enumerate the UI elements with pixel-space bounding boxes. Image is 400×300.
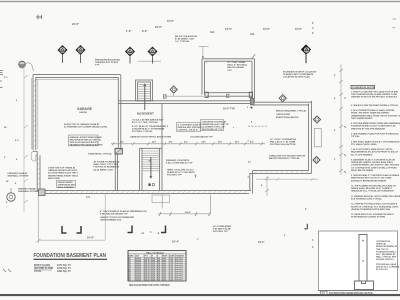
svg-text:VACANT DEVLDG: VACANT DEVLDG <box>376 258 394 261</box>
svg-text:COVER BETWEEN, LAP JOINTS 6" M: COVER BETWEEN, LAP JOINTS 6" MIN., PROVI… <box>351 164 400 167</box>
svg-text:W/ BITUMINOUS COATING SYSTEM: W/ BITUMINOUS COATING SYSTEM <box>351 216 385 219</box>
svg-text:8x16: 8x16 <box>162 280 166 282</box>
svg-text:ALIGN TOP OF GARAGE SLAB AT: ALIGN TOP OF GARAGE SLAB AT <box>64 123 100 126</box>
svg-text:4x4: 4x4 <box>120 141 124 144</box>
detail box <box>319 231 400 295</box>
svg-text:THE POWDER BOARD: THE POWDER BOARD <box>351 117 373 120</box>
svg-text:2: 2 <box>312 31 314 35</box>
slab note bottom <box>100 210 147 222</box>
svg-text:2x4-16: 2x4-16 <box>144 279 149 282</box>
svg-text:AT DIR LUG: AT DIR LUG <box>376 268 388 271</box>
svg-text:2: 2 <box>247 107 249 109</box>
svg-text:THE FOUNDATION WALLS AND ORDER: THE FOUNDATION WALLS AND ORDERS TO BE <box>351 93 398 96</box>
svg-text:GARAGE MODELS W/ ELEC.: GARAGE MODELS W/ ELEC. <box>48 169 78 172</box>
garage left wall <box>32 75 38 150</box>
left margin tick marks <box>0 71 3 88</box>
svg-text:PROVIDE ALL BASE: PROVIDE ALL BASE <box>376 263 397 266</box>
svg-text:WALL SPLIT 2 TP CONT: WALL SPLIT 2 TP CONT <box>94 163 120 166</box>
left margin tiny dim texts <box>4 77 19 204</box>
svg-text:8': 8' <box>4 157 6 159</box>
brace required note <box>276 110 307 120</box>
scan bottom border line <box>0 294 400 296</box>
svg-text:UNDERPINNING WALL FROM TOP. BY: UNDERPINNING WALL FROM TOP. BY FOOTING T… <box>351 114 400 117</box>
area summary lines <box>34 264 71 273</box>
svg-text:+d: +d <box>141 232 144 235</box>
svg-text:B. AT EMB'D 7x48": B. AT EMB'D 7x48" <box>175 38 195 41</box>
circle symbol top left <box>19 61 34 71</box>
svg-text:24'-0": 24'-0" <box>155 25 163 29</box>
svg-text:24'-0": 24'-0" <box>225 27 233 31</box>
svg-text:3. ALL FOUNDATION WALLS SHALL: 3. ALL FOUNDATION WALLS SHALL SPECIAL <box>351 109 395 112</box>
upper stair treads <box>138 85 151 99</box>
svg-text:12. STEPPED FOOTINGS SHALL NO: 12. STEPPED FOOTINGS SHALL NOT EXCEED A <box>351 203 398 206</box>
svg-text:AT 8" O.C. MID, TYPICAL: AT 8" O.C. MID, TYPICAL <box>132 121 159 124</box>
small marks near bump corner <box>202 57 208 65</box>
dim line under right section <box>256 178 318 182</box>
detail text <box>376 241 400 271</box>
left wall jog <box>31 151 40 190</box>
svg-text:2-#4: 2-#4 <box>169 279 172 282</box>
top diamond marker 3 <box>125 47 134 64</box>
svg-text:GRAVITY POINT ON PERIMETER: GRAVITY POINT ON PERIMETER <box>100 216 134 219</box>
svg-text:PRESSURE BALANCED: PRESSURE BALANCED <box>95 59 120 62</box>
svg-text:UNDISTURBED SOIL: UNDISTURBED SOIL <box>100 219 122 221</box>
dashed dim line <box>248 125 267 127</box>
svg-text:LANDLORD TOP HOUSE PORTION: LANDLORD TOP HOUSE PORTION <box>269 155 306 158</box>
svg-text:TYP.: TYP. <box>227 70 232 72</box>
svg-text:4x4: 4x4 <box>184 141 188 144</box>
right section top wall <box>252 102 312 105</box>
svg-text:AND AT ALL CORNERS: AND AT ALL CORNERS <box>376 265 400 268</box>
foundation location note <box>283 71 317 79</box>
svg-text:+: + <box>206 62 208 64</box>
svg-text:UNEX. ON SLOPE TO 4'0": UNEX. ON SLOPE TO 4'0" <box>167 169 194 172</box>
svg-text:FOUNDATION/ BASEMENT PLAN: FOUNDATION/ BASEMENT PLAN <box>34 253 107 259</box>
svg-text:WALL FRAMING: WALL FRAMING <box>58 186 75 189</box>
svg-text:8: 8 <box>16 100 18 102</box>
svg-text:TYP.: TYP. <box>95 65 100 67</box>
svg-text:SEE ELEVATION FOR ATTIC SPACES: SEE ELEVATION FOR ATTIC SPACES <box>129 284 170 287</box>
lower stair treads <box>142 151 160 171</box>
svg-text:24'0: 24'0 <box>235 141 240 144</box>
top diamond marker 4 <box>148 47 157 64</box>
svg-text:BELOW GRADE: BELOW GRADE <box>227 66 244 69</box>
bottom wall left section <box>37 191 251 194</box>
pilaster garage bottom corner <box>39 189 46 196</box>
svg-text:COLUMN ABOVE TYP: COLUMN ABOVE TYP <box>190 136 213 139</box>
svg-text:GRADE 8W/ GRAVEL, INSTALL AVAI: GRADE 8W/ GRAVEL, INSTALL AVAIL FIELD <box>351 161 393 164</box>
svg-text:(2) #4 BARS CONT: (2) #4 BARS CONT <box>94 168 114 171</box>
left vertical dimension line <box>24 69 28 213</box>
right section bottom wall <box>250 171 312 174</box>
svg-text:AB 3/4" DIA ANCHOR: AB 3/4" DIA ANCHOR <box>175 35 198 38</box>
svg-text:8: 8 <box>15 183 17 185</box>
foundation notes column <box>351 85 400 218</box>
deck edge line above stairs <box>138 60 161 62</box>
svg-text:UNLESS OTHERWISE NOTED PER PLA: UNLESS OTHERWISE NOTED PER PLAN <box>351 208 391 211</box>
svg-text:EVERYTHING ABOVE: EVERYTHING ABOVE <box>276 116 299 119</box>
svg-text:11. MINERAL BACKFILL WITH COM: 11. MINERAL BACKFILL WITH COMPACTED GRAV… <box>351 195 400 198</box>
boxed note lower left <box>57 181 76 190</box>
svg-text:x+: x+ <box>197 239 200 241</box>
top right margin ticks <box>393 19 397 28</box>
svg-text:1/2 GA. 4 AT MIN BAR EA WAY: 1/2 GA. 4 AT MIN BAR EA WAY <box>132 119 164 122</box>
svg-text:9'-0: 9'-0 <box>4 77 8 79</box>
svg-text:WATER PANELS BEST HELD: WATER PANELS BEST HELD <box>48 174 78 177</box>
detail title strip <box>319 290 398 292</box>
svg-text:4': 4' <box>334 97 336 100</box>
svg-text:24': 24' <box>6 180 9 183</box>
svg-text:16" CONC. FOUNDATION: 16" CONC. FOUNDATION <box>270 138 297 141</box>
svg-text:ABOVE PROPERTY, TYPICAL: ABOVE PROPERTY, TYPICAL <box>269 157 300 160</box>
detail footing <box>355 281 374 290</box>
svg-text:CONTROL JTS AT 8': CONTROL JTS AT 8' <box>178 129 198 132</box>
scan top edge line <box>0 1 400 2</box>
svg-text:13. DAMP-PROOF ALL FOUNDATION: 13. DAMP-PROOF ALL FOUNDATION WALLS <box>351 213 394 216</box>
svg-text:-d: -d <box>157 232 160 235</box>
svg-text:4: 4 <box>248 176 250 179</box>
beam line left thin <box>164 95 205 98</box>
svg-text:8x8: 8x8 <box>157 280 160 282</box>
garage slab note <box>64 123 108 129</box>
svg-text:FOOTING IN AU ACTION: FOOTING IN AU ACTION <box>270 143 296 146</box>
svg-text:1. SHAFT LOCATIONS FOR CLEAN: 1. SHAFT LOCATIONS FOR CLEAN FOOTOP AND <box>351 91 399 94</box>
svg-text:4': 4' <box>6 201 8 204</box>
svg-text:FOUNDATION REINFORCING DETAIL: FOUNDATION REINFORCING DETAIL <box>329 292 374 295</box>
svg-text:VERIFIED IN SITU AT THE PROJEC: VERIFIED IN SITU AT THE PROJECT SCHEDULE <box>351 96 398 99</box>
svg-text:BASEMENT: BASEMENT <box>137 112 154 116</box>
svg-text:GRANULAR FILL, TYPICAL AT FOUN: GRANULAR FILL, TYPICAL AT FOUNDATION <box>351 190 394 193</box>
svg-text:SEGMENT PER GARAGE BOARD: SEGMENT PER GARAGE BOARD <box>70 143 104 146</box>
svg-text:8. BASEMENT SLAB, 4" CONCRETE: 8. BASEMENT SLAB, 4" CONCRETE SLAB ON <box>351 159 396 162</box>
anchor bolt note top <box>175 35 198 43</box>
right vertical dimension line <box>339 64 343 175</box>
svg-text:24'-0": 24'-0" <box>72 22 80 26</box>
svg-text:8': 8' <box>334 75 336 77</box>
svg-text:16'-4": 16'-4" <box>172 240 180 244</box>
svg-text:CONCRETE AT 2" AT MINIMUM: CONCRETE AT 2" AT MINIMUM <box>132 128 164 131</box>
svg-text:7. ALL FOOTSTEPS, SEEN IN FUL: 7. ALL FOOTSTEPS, SEEN IN FULL, DEPTH <box>351 148 393 151</box>
top diamond marker 2 <box>76 45 85 63</box>
svg-text:ACK WORKING LEVEL TYPICAL: ACK WORKING LEVEL TYPICAL <box>351 198 383 201</box>
svg-text:GARAGE: GARAGE <box>77 107 93 111</box>
svg-text:FTG. WALK PLATE LOADS: FTG. WALK PLATE LOADS <box>351 143 377 146</box>
svg-text:1/2" CONTRACTION JOINTS AT WAL: 1/2" CONTRACTION JOINTS AT WALL OPTIONS <box>351 166 397 169</box>
svg-text:4292 SQ. FT.: 4292 SQ. FT. <box>57 270 71 273</box>
schedule table <box>128 251 186 282</box>
svg-text:AND DONE: AND DONE <box>48 177 60 180</box>
svg-text:WALL AS 8'-0" AT CURB: WALL AS 8'-0" AT CURB <box>270 141 296 144</box>
plan diamond above right wall <box>279 95 286 102</box>
svg-text:4x4: 4x4 <box>210 30 215 34</box>
svg-text:FOOTING TYP: FOOTING TYP <box>213 231 228 233</box>
cover area note <box>213 225 231 233</box>
boxed garage note <box>69 135 104 146</box>
svg-text:TOTAL: TOTAL <box>34 270 42 273</box>
2 #4 bars note <box>94 161 120 172</box>
sill plate note above garage wall <box>95 59 120 67</box>
svg-text:24'-0": 24'-0" <box>263 27 271 31</box>
unexcavated note <box>167 169 195 177</box>
svg-text:MOIST BELOW GRADE: MOIST BELOW GRADE <box>351 169 374 172</box>
detail stem wall <box>359 235 367 282</box>
svg-text:5. SEE FRAMING PLANS FOR POST: 5. SEE FRAMING PLANS FOR POST SCHEDULES, <box>351 133 399 136</box>
hook at bump top right corner <box>252 55 255 59</box>
svg-text:24'0: 24'0 <box>152 141 157 144</box>
svg-text:AT STONE FOUNDATION: AT STONE FOUNDATION <box>94 161 120 164</box>
svg-text:24'0: 24'0 <box>218 141 223 144</box>
svg-text:2': 2' <box>334 159 336 161</box>
svg-text:x: x <box>284 234 286 237</box>
svg-text:GRK3B: GRK3B <box>79 112 87 114</box>
svg-text:A. FINISHED 8x10 LOWER GRADE L: A. FINISHED 8x10 LOWER GRADE LEVEL <box>64 126 108 129</box>
garage top wall <box>33 75 121 80</box>
svg-text:4: 4 <box>150 231 152 234</box>
svg-text:24': 24' <box>4 126 7 129</box>
svg-text:SLOPE OF 1 VERTICAL TO 2 HORIZ: SLOPE OF 1 VERTICAL TO 2 HORIZONTAL UNIT… <box>351 205 399 208</box>
svg-text:4'-0: 4'-0 <box>15 139 19 142</box>
svg-text:REINFORCEMENT AT: REINFORCEMENT AT <box>376 245 398 248</box>
stub above bump corner <box>199 46 209 59</box>
dark diamond marker right <box>301 45 310 63</box>
svg-text:24'0: 24'0 <box>169 141 174 144</box>
stair arrow <box>150 157 152 178</box>
tiny tick bottom left <box>3 269 11 272</box>
garage right wall <box>118 75 121 150</box>
svg-text:BRACE REQUIRED, TYPICAL: BRACE REQUIRED, TYPICAL <box>276 110 307 113</box>
svg-text:VERTICAL: VERTICAL <box>376 243 387 246</box>
svg-text:O.C. TYPICAL: O.C. TYPICAL <box>175 40 190 43</box>
svg-text:y: y <box>195 174 197 178</box>
plan diamond right wall lower <box>313 156 320 163</box>
stoop dim ticks <box>159 212 211 216</box>
svg-text:SPLICE MIN. 24" TYP: SPLICE MIN. 24" TYP <box>202 128 224 131</box>
corner block at jog <box>251 99 255 105</box>
svg-text:SLABS AT 16" CONCRETE: SLABS AT 16" CONCRETE <box>167 171 195 174</box>
vertical dim line below wall center <box>104 194 106 240</box>
svg-text:CANTILEVER: CANTILEVER <box>276 113 290 116</box>
svg-text:W/ 6" MIN BEND AT: W/ 6" MIN BEND AT <box>376 253 396 256</box>
svg-text:24'0: 24'0 <box>202 141 207 144</box>
svg-text:SIDEWALK SYSTEM: SIDEWALK SYSTEM <box>18 190 38 193</box>
svg-text:4. PROVIDE REINFORCED STEMS (: 4. PROVIDE REINFORCED STEMS (RECOMMENDS) <box>351 122 400 125</box>
chimney bump on right wall <box>314 129 321 147</box>
svg-text:SIDEWALL SYSTEM: SIDEWALL SYSTEM <box>8 175 29 178</box>
finished grade note <box>8 172 29 178</box>
dim text right mid <box>258 208 307 244</box>
svg-text:4: 4 <box>16 158 18 161</box>
over the top note <box>48 167 79 180</box>
svg-text:AT COVER AREA: AT COVER AREA <box>213 225 231 228</box>
stoop outline below bottom wall <box>162 195 210 214</box>
svg-text:24'-0": 24'-0" <box>295 27 303 31</box>
16 conc foundation note <box>270 138 297 146</box>
bottom dim line under stoop <box>158 213 211 215</box>
interior dimension line with ticks <box>111 142 265 145</box>
lower stair shaft <box>140 104 163 191</box>
svg-text:TYP. FTG: TYP. FTG <box>175 280 183 282</box>
svg-text:x: x <box>233 127 235 129</box>
L bracket footing marks <box>62 226 166 234</box>
svg-text:ASPHALTIC IMPREGNATED SHEATH: ASPHALTIC IMPREGNATED SHEATH <box>351 179 387 182</box>
J mark left of detail box <box>305 224 308 229</box>
small x marks <box>141 231 160 235</box>
upper stair center rail with arrow <box>144 84 146 110</box>
svg-text:4 2: 4 2 <box>248 161 252 164</box>
svg-text:4. 8'0" IN ALL'D THICKENED SET: 4. 8'0" IN ALL'D THICKENED SET 2 <box>132 125 169 128</box>
svg-text:PLEASE LIMIT COORDINATE: PLEASE LIMIT COORDINATE <box>283 73 314 76</box>
svg-text:FOUNDATION NOTES: FOUNDATION NOTES <box>352 86 375 89</box>
svg-text:8': 8' <box>334 130 336 132</box>
svg-text:4 MIL BELOW GRADE TYP: 4 MIL BELOW GRADE TYP <box>100 212 128 215</box>
plan diamond near beam left <box>170 86 177 96</box>
bottom wall hatch <box>45 191 246 193</box>
svg-text:4x4: 4x4 <box>250 32 255 36</box>
beam double with column blocks <box>205 92 253 97</box>
svg-text:16'-4": 16'-4" <box>258 241 265 244</box>
corner cross mark top left <box>36 15 42 20</box>
svg-text:24'-6": 24'-6" <box>87 236 95 240</box>
svg-text:1': 1' <box>312 21 314 25</box>
svg-text:6. REF SHALL BEAR ON SOLID / O: 6. REF SHALL BEAR ON SOLID / ON FOUNDATI… <box>351 140 400 143</box>
svg-text:GRADE SHALL BE A MIN. OF 4" CO: GRADE SHALL BE A MIN. OF 4" COMPACT <box>351 187 393 190</box>
svg-text:ACCESSORIES GA AT THE 6: ACCESSORIES GA AT THE 6 <box>48 172 79 175</box>
svg-text:FOUNDATION WALL: FOUNDATION WALL <box>376 250 397 253</box>
svg-text:4" THICK FRENCH SLAB W/ FIBERM: 4" THICK FRENCH SLAB W/ FIBERMESH ON <box>100 210 147 213</box>
svg-text:2. SEE BOLT ONE THE WHAT OVER: 2. SEE BOLT ONE THE WHAT OVERALL TYPICAL <box>351 104 399 107</box>
svg-text:WALL 8" BIG WALL: WALL 8" BIG WALL <box>227 64 248 67</box>
svg-text:8 AT BEST SLAB: 8 AT BEST SLAB <box>213 228 231 231</box>
svg-text:8 ALL DOWN WALLS TYP: 8 ALL DOWN WALLS TYP <box>166 162 193 165</box>
svg-text:STEM METAL TYPICAL: STEM METAL TYPICAL <box>88 153 113 156</box>
svg-text:10. THE PLANNED FILLING BELOW: 10. THE PLANNED FILLING BELOW SLABS ON <box>351 185 396 188</box>
svg-text:FINISHED GRADE: FINISHED GRADE <box>18 188 36 191</box>
svg-text:16'-0" TYP: 16'-0" TYP <box>223 108 235 111</box>
svg-text:4: 4 <box>312 246 314 249</box>
svg-text:4| 4|: 4| 4| <box>86 196 90 199</box>
top diamond marker 1 <box>58 45 67 63</box>
boxed note right of basement <box>177 123 202 132</box>
step vertical between sections <box>250 171 253 194</box>
svg-text:FOOTING, TYPICAL: FOOTING, TYPICAL <box>132 130 153 133</box>
svg-text:24'-8": 24'-8" <box>185 211 191 214</box>
upper bump rectangle walls <box>202 59 254 102</box>
small marks right interior <box>233 107 253 179</box>
svg-text:4: 4 <box>251 121 253 124</box>
svg-text:WALL TYPICAL PER: WALL TYPICAL PER <box>376 256 397 259</box>
top dimension texts <box>72 19 314 36</box>
concrete footing boxed note <box>201 120 229 131</box>
svg-text:16x8: 16x8 <box>151 280 155 282</box>
svg-text:8x16x8: 8x16x8 <box>135 280 141 282</box>
svg-text:FOUNDATION DROP LOCATION: FOUNDATION DROP LOCATION <box>283 71 317 74</box>
notes left tick marks <box>344 97 346 173</box>
svg-text:1': 1' <box>305 208 307 211</box>
svg-text:OVER THE TOP THERE AT: OVER THE TOP THERE AT <box>48 167 76 170</box>
small vertical dim marks below right section <box>265 176 269 196</box>
landlord note <box>269 155 306 161</box>
finished grade note 2 <box>18 188 38 194</box>
circle symbol bottom left <box>7 188 15 201</box>
basement notes paragraph <box>132 119 169 134</box>
upper stair shaft <box>136 80 153 101</box>
left wall hatch <box>33 80 40 185</box>
small box under wall left of stoop <box>152 195 170 203</box>
svg-text:4x4: 4x4 <box>250 141 254 144</box>
right wall <box>309 101 312 174</box>
svg-text:DIRECTED BY THE SITE MANAGER: DIRECTED BY THE SITE MANAGER <box>351 127 386 130</box>
finished concrete note <box>166 160 193 165</box>
garage right wall lower run <box>115 154 117 191</box>
svg-text:FOOTING TYP: FOOTING TYP <box>167 175 182 177</box>
svg-text:9. VAPOUR SEAL 2" CONCRETE SL: 9. VAPOUR SEAL 2" CONCRETE SLAB ON GRADE <box>351 174 400 177</box>
svg-text:LOCATION W/ SITE PLAN: LOCATION W/ SITE PLAN <box>283 76 310 79</box>
svg-text:4: 4 <box>312 26 314 30</box>
svg-text:24'-0": 24'-0" <box>167 19 175 23</box>
svg-text:GARAGE DOOR PORTAL AND SYSTEM: GARAGE DOOR PORTAL AND SYSTEM <box>130 136 171 139</box>
svg-text:9'-0": 9'-0" <box>142 29 148 33</box>
svg-text:4: 4 <box>312 239 314 242</box>
plan diamond right wall upper <box>313 116 320 123</box>
svg-text:ALL FLOOR FRAMING: ALL FLOOR FRAMING <box>351 153 373 156</box>
10 conc fndn wall note <box>227 62 248 72</box>
svg-text:1'-0": 1'-0" <box>126 29 132 33</box>
svg-text:FINISHED SLAB AT: FINISHED SLAB AT <box>8 172 29 175</box>
door jamb block <box>115 148 122 154</box>
svg-text:8|: 8| <box>202 57 204 59</box>
svg-text:REQUIREMENTS AT LAYOUTS PRIOR: REQUIREMENTS AT LAYOUTS PRIOR TO A/B, AT <box>351 151 398 154</box>
svg-text:TREATED SILL PLATE: TREATED SILL PLATE <box>95 61 119 64</box>
small marks left of detail box <box>284 234 314 249</box>
svg-text:4': 4' <box>261 184 263 187</box>
svg-text:TYPICAL: TYPICAL <box>351 135 360 138</box>
right bottom wall hatch <box>255 171 308 173</box>
garage corner vertical dim line <box>37 196 41 243</box>
svg-text:FOUNDATION AND GLAZLT TO ANCHO: FOUNDATION AND GLAZLT TO ANCHOR IT AS <box>351 125 396 128</box>
main interior horizontal wall <box>118 101 251 104</box>
